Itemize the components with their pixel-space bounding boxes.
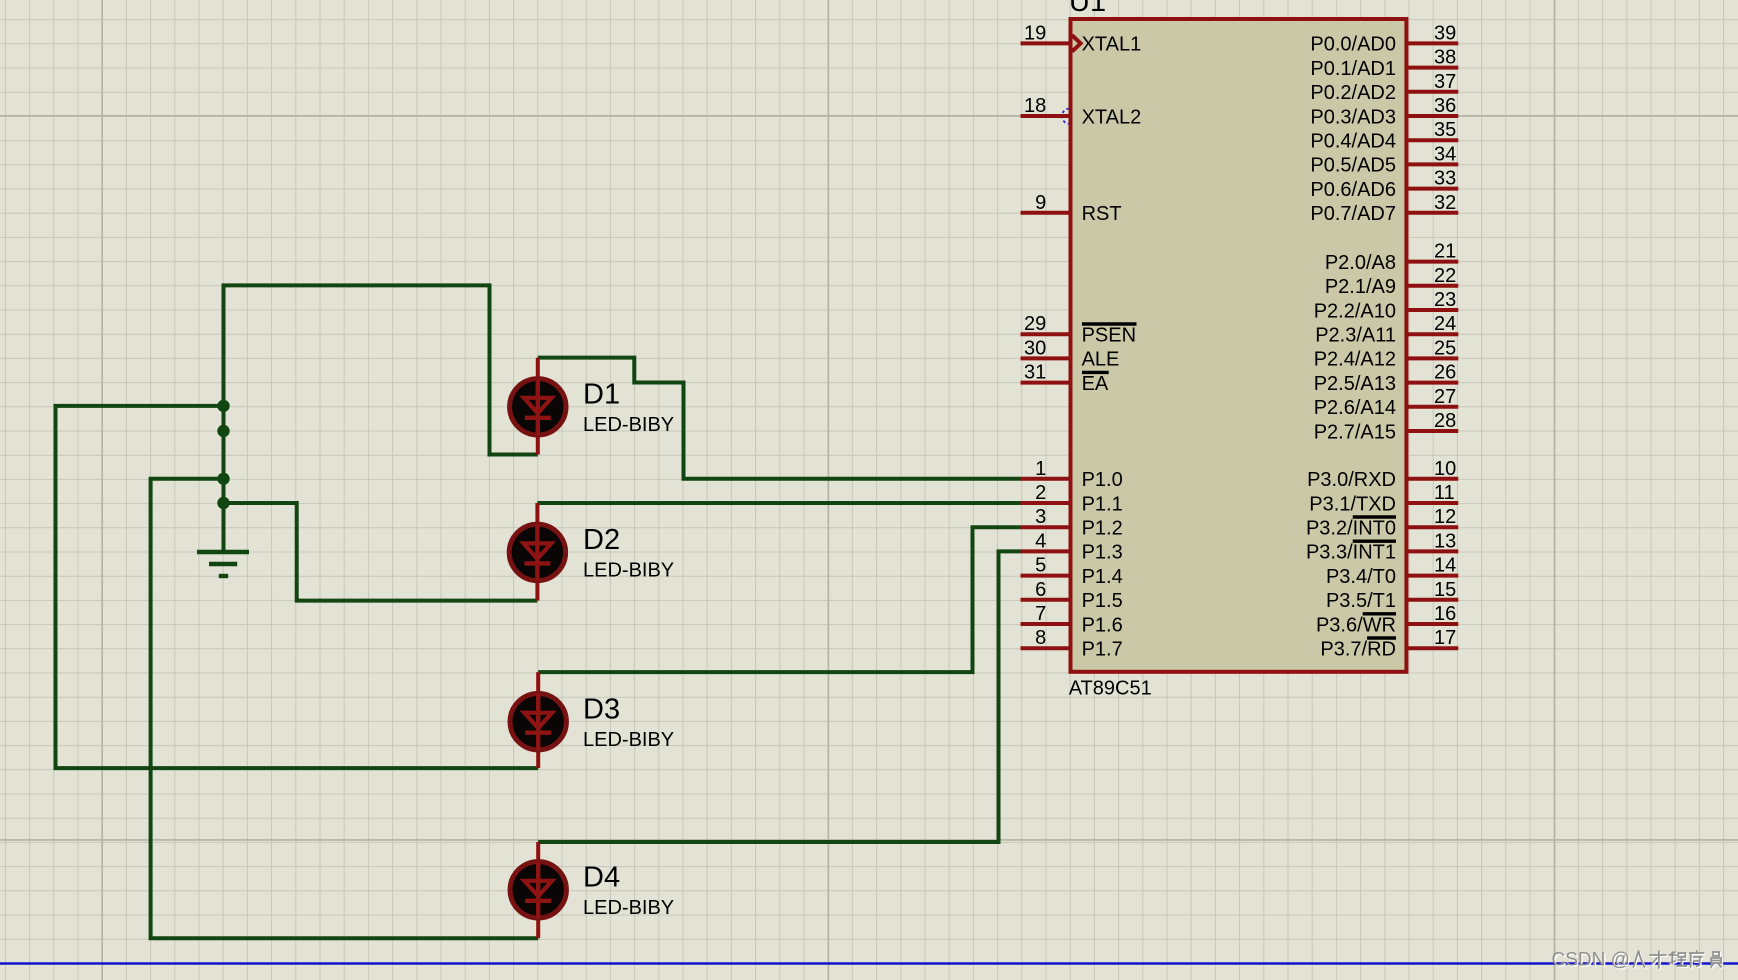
svg-text:14: 14 xyxy=(1434,555,1456,577)
svg-text:39: 39 xyxy=(1434,22,1456,44)
node XTAL1 clock chevron xyxy=(1072,35,1081,51)
svg-text:13: 13 xyxy=(1434,530,1456,552)
svg-text:AT89C51: AT89C51 xyxy=(1069,677,1152,699)
svg-text:9: 9 xyxy=(1035,192,1046,214)
svg-text:29: 29 xyxy=(1024,313,1046,335)
svg-text:3: 3 xyxy=(1035,506,1046,528)
svg-text:P0.3/AD3: P0.3/AD3 xyxy=(1310,106,1396,128)
svg-text:D4: D4 xyxy=(583,862,620,894)
svg-text:33: 33 xyxy=(1434,168,1456,190)
svg-text:P2.7/A15: P2.7/A15 xyxy=(1314,421,1396,443)
svg-text:P1.0: P1.0 xyxy=(1082,469,1123,491)
svg-text:2: 2 xyxy=(1035,482,1046,504)
svg-text:D3: D3 xyxy=(583,693,620,725)
node junction dot 4 xyxy=(217,497,229,509)
svg-text:6: 6 xyxy=(1035,579,1046,601)
wire D4 anode to pin P1.3 xyxy=(538,551,1020,842)
svg-text:P3.7/RD: P3.7/RD xyxy=(1320,639,1396,661)
svg-text:P1.4: P1.4 xyxy=(1082,566,1123,588)
svg-text:U1: U1 xyxy=(1069,0,1106,18)
svg-text:P1.1: P1.1 xyxy=(1082,493,1123,515)
svg-text:P3.3/INT1: P3.3/INT1 xyxy=(1306,542,1396,564)
svg-text:35: 35 xyxy=(1434,119,1456,141)
svg-text:P0.0/AD0: P0.0/AD0 xyxy=(1310,34,1396,56)
svg-text:8: 8 xyxy=(1035,627,1046,649)
svg-text:36: 36 xyxy=(1434,95,1456,117)
wire D2 anode to pin P1.1 xyxy=(537,501,1020,505)
wire D4 cathode branch xyxy=(151,479,539,939)
svg-text:P3.1/TXD: P3.1/TXD xyxy=(1309,493,1396,515)
svg-text:P0.5/AD5: P0.5/AD5 xyxy=(1310,155,1396,177)
svg-text:P3.5/T1: P3.5/T1 xyxy=(1326,590,1396,612)
svg-text:RST: RST xyxy=(1082,203,1122,225)
svg-text:19: 19 xyxy=(1024,22,1046,44)
svg-text:17: 17 xyxy=(1434,627,1456,649)
watermark CSDN xyxy=(1552,950,1632,973)
svg-text:32: 32 xyxy=(1434,192,1456,214)
svg-text:18: 18 xyxy=(1024,95,1046,117)
node junction dot 3 xyxy=(217,473,229,485)
svg-text:PSEN: PSEN xyxy=(1082,325,1136,347)
svg-text:P2.2/A10: P2.2/A10 xyxy=(1314,300,1396,322)
svg-text:P2.5/A13: P2.5/A13 xyxy=(1314,373,1396,395)
svg-text:P1.7: P1.7 xyxy=(1082,639,1123,661)
wire D3 cathode branch xyxy=(56,406,539,768)
svg-text:24: 24 xyxy=(1434,313,1456,335)
wire D2 cathode branch xyxy=(224,503,538,601)
svg-text:26: 26 xyxy=(1434,362,1456,384)
pin stubs all sides xyxy=(1021,43,1459,648)
svg-text:16: 16 xyxy=(1434,603,1456,625)
svg-text:23: 23 xyxy=(1434,289,1456,311)
LED D4 (LED-BIBY) xyxy=(510,842,566,938)
svg-text:P1.5: P1.5 xyxy=(1082,590,1123,612)
svg-text:28: 28 xyxy=(1434,410,1456,432)
node junction dot 1 xyxy=(217,400,229,412)
svg-text:11: 11 xyxy=(1434,482,1455,504)
LED D3 (LED-BIBY) xyxy=(510,672,566,768)
svg-text:P2.0/A8: P2.0/A8 xyxy=(1325,252,1396,274)
svg-text:CSDN @: CSDN @ xyxy=(1552,950,1630,971)
svg-text:4: 4 xyxy=(1035,530,1046,552)
svg-text:37: 37 xyxy=(1434,71,1456,93)
svg-text:P0.1/AD1: P0.1/AD1 xyxy=(1310,58,1396,80)
LED D1 (LED-BIBY) xyxy=(510,358,566,455)
svg-text:P3.4/T0: P3.4/T0 xyxy=(1326,566,1396,588)
svg-text:D1: D1 xyxy=(583,379,620,411)
svg-text:EA: EA xyxy=(1082,373,1109,395)
svg-text:31: 31 xyxy=(1024,362,1046,384)
svg-text:LED-BIBY: LED-BIBY xyxy=(583,897,674,919)
svg-text:P0.2/AD2: P0.2/AD2 xyxy=(1310,82,1396,104)
svg-text:21: 21 xyxy=(1434,241,1456,263)
wire D1 cathode riser xyxy=(490,283,538,454)
svg-text:12: 12 xyxy=(1434,506,1456,528)
svg-text:5: 5 xyxy=(1035,555,1046,577)
svg-text:P0.6/AD6: P0.6/AD6 xyxy=(1310,179,1396,201)
svg-text:25: 25 xyxy=(1434,337,1456,359)
svg-text:P1.2: P1.2 xyxy=(1082,518,1123,540)
svg-text:LED-BIBY: LED-BIBY xyxy=(583,560,674,582)
IC U1 AT89C51 body xyxy=(1071,19,1407,672)
LED D2 (LED-BIBY) xyxy=(509,503,565,601)
svg-text:ALE: ALE xyxy=(1082,349,1120,371)
svg-text:P0.4/AD4: P0.4/AD4 xyxy=(1310,131,1396,153)
svg-text:30: 30 xyxy=(1024,337,1046,359)
svg-text:P2.1/A9: P2.1/A9 xyxy=(1325,276,1396,298)
svg-text:15: 15 xyxy=(1434,579,1456,601)
ground xyxy=(197,520,249,576)
svg-text:22: 22 xyxy=(1434,265,1456,287)
node junction dot 2 xyxy=(217,425,229,437)
svg-text:7: 7 xyxy=(1035,603,1046,625)
wire ground bus top segment xyxy=(224,285,490,551)
svg-text:LED-BIBY: LED-BIBY xyxy=(583,414,674,436)
svg-text:1: 1 xyxy=(1035,458,1046,480)
svg-text:38: 38 xyxy=(1434,47,1456,69)
svg-text:P3.0/RXD: P3.0/RXD xyxy=(1307,469,1396,491)
svg-text:XTAL2: XTAL2 xyxy=(1082,106,1142,128)
svg-text:P1.6: P1.6 xyxy=(1082,614,1123,636)
svg-text:P2.4/A12: P2.4/A12 xyxy=(1314,349,1396,371)
svg-text:P2.6/A14: P2.6/A14 xyxy=(1314,397,1396,419)
svg-text:XTAL1: XTAL1 xyxy=(1082,34,1142,56)
wire D3 anode to pin P1.2 xyxy=(538,527,1020,672)
svg-text:34: 34 xyxy=(1434,143,1456,165)
svg-text:27: 27 xyxy=(1434,386,1456,408)
svg-text:10: 10 xyxy=(1434,458,1456,480)
svg-text:P3.6/WR: P3.6/WR xyxy=(1316,614,1396,636)
node XTAL2 dashed circle marker xyxy=(1062,109,1077,124)
svg-text:P3.2/INT0: P3.2/INT0 xyxy=(1306,518,1396,540)
svg-text:P0.7/AD7: P0.7/AD7 xyxy=(1310,203,1396,225)
svg-text:LED-BIBY: LED-BIBY xyxy=(583,729,674,751)
svg-text:P2.3/A11: P2.3/A11 xyxy=(1315,325,1396,347)
svg-text:P1.3: P1.3 xyxy=(1082,542,1123,564)
svg-text:D2: D2 xyxy=(583,524,620,556)
wire D1 anode to pin P1.0 xyxy=(538,358,1021,479)
